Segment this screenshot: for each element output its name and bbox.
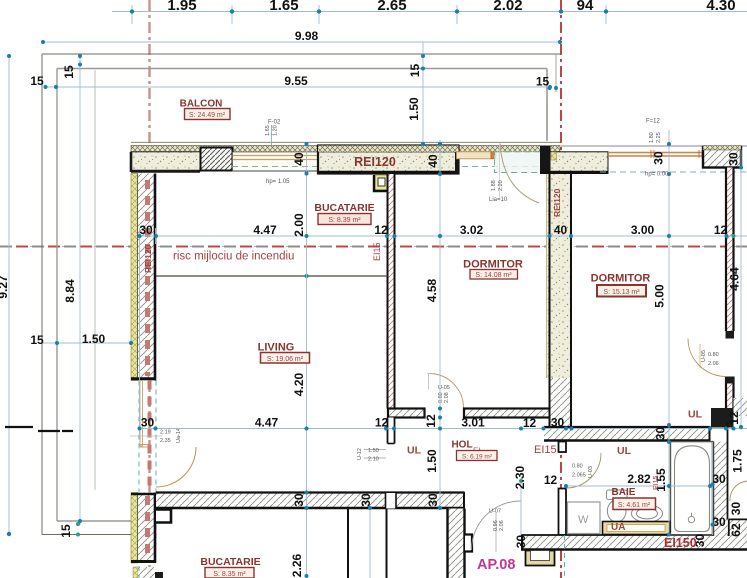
svg-text:2.10: 2.10: [368, 457, 379, 463]
svg-text:S: 4.61 m²: S: 4.61 m²: [618, 502, 651, 509]
balcony door swing arc: [500, 144, 539, 204]
svg-text:0.80: 0.80: [572, 464, 583, 470]
dim column x=440: [439, 140, 441, 509]
svg-text:3.00: 3.00: [631, 223, 655, 237]
room label DORMITOR 2: [591, 273, 651, 297]
svg-text:hp= 0.00: hp= 0.00: [645, 172, 669, 178]
neighbour door swing arc: [730, 481, 747, 501]
dim line x=712.5 right of baie: [712, 442, 714, 535]
window F-02 labels: [265, 120, 281, 146]
balcony overhang line above living: [156, 275, 388, 277]
room label BUCATARIE lower apt: [200, 556, 260, 578]
balcony bottom return inner: [57, 520, 131, 522]
svg-text:U-07: U-07: [489, 509, 501, 515]
svg-text:40: 40: [292, 152, 306, 166]
svg-text:EI15: EI15: [372, 242, 382, 261]
svg-text:W: W: [578, 514, 589, 526]
threshold end cap orange: [491, 152, 496, 159]
svg-text:S: 6.19 m²: S: 6.19 m²: [462, 454, 493, 461]
svg-text:AP.08: AP.08: [477, 557, 515, 573]
living balcony door swing arc: [156, 447, 196, 487]
svg-text:hp= 1.05: hp= 1.05: [266, 179, 290, 185]
north wall segment 3 (stipple): [540, 146, 609, 174]
svg-text:1.80: 1.80: [649, 132, 655, 143]
svg-text:S: 8.35 m²: S: 8.35 m²: [213, 571, 246, 578]
dim chain top y=11.5: [112, 11, 747, 13]
svg-text:REI120: REI120: [143, 244, 153, 273]
svg-text:UA: UA: [611, 522, 625, 533]
svg-text:2.82: 2.82: [627, 472, 651, 486]
svg-text:2.06: 2.06: [499, 520, 505, 531]
svg-text:30: 30: [426, 493, 440, 507]
svg-text:2.08: 2.08: [444, 392, 450, 403]
level tick dashes: [5, 427, 73, 431]
AP08 hol wall vertical: [448, 509, 466, 578]
baie door tray (tan): [603, 522, 671, 535]
balcony inner edge left: [56, 69, 58, 522]
svg-text:1.50: 1.50: [425, 449, 439, 473]
door U-03 swing arc: [566, 453, 601, 488]
masonry parapet block (hatched): [201, 148, 233, 171]
svg-text:62: 62: [729, 523, 743, 537]
dim line balcony 1.50 y=343: [42, 342, 131, 344]
svg-text:40: 40: [554, 223, 568, 237]
door U-05 swing arc: [688, 339, 726, 377]
dim line 9.27 x=9: [8, 56, 10, 534]
svg-text:UL: UL: [617, 445, 632, 457]
teal dots: [76, 234, 736, 537]
svg-text:9.27: 9.27: [0, 275, 10, 299]
left wall lower window start: [133, 566, 155, 578]
svg-text:2.20: 2.20: [498, 180, 504, 191]
svg-text:UL: UL: [407, 445, 422, 457]
svg-text:1.50: 1.50: [368, 448, 379, 454]
balcony thin line left: [94, 70, 96, 490]
svg-text:30: 30: [292, 493, 306, 507]
svg-text:1.50: 1.50: [407, 97, 421, 121]
svg-text:30: 30: [139, 223, 153, 237]
svg-text:94: 94: [577, 0, 594, 14]
svg-text:REI120: REI120: [552, 188, 562, 217]
balcony door opening zone (teal dashed): [495, 152, 541, 173]
dim chain rooms y=236: [139, 235, 747, 237]
north wall segment 1 (stipple): [131, 152, 200, 172]
svg-text:30: 30: [652, 151, 666, 165]
svg-text:4.58: 4.58: [425, 278, 439, 302]
window sill dashed line hp=1.05: [232, 166, 540, 168]
svg-text:15: 15: [59, 524, 73, 538]
svg-text:12: 12: [544, 473, 558, 487]
terrace edge dashed line hg 0.00: [600, 171, 747, 173]
svg-text:EI15: EI15: [534, 444, 557, 456]
svg-text:40: 40: [426, 154, 440, 168]
svg-text:30: 30: [551, 416, 565, 430]
svg-text:9.98: 9.98: [295, 29, 319, 43]
dim column x=669: [668, 130, 670, 535]
svg-text:Lia=10: Lia=10: [489, 197, 508, 203]
svg-text:S: 15.13 m²: S: 15.13 m²: [603, 289, 640, 296]
dim baie 2.82 y=486: [566, 485, 710, 487]
svg-text:2.06: 2.06: [708, 361, 719, 367]
bottom band left (between apartments): [156, 492, 465, 509]
svg-text:15: 15: [536, 75, 550, 89]
dim line 9.55 y=87: [45, 86, 550, 88]
svg-text:15: 15: [30, 74, 44, 88]
fire wall REI120 vertical x=546-572: [546, 174, 572, 428]
svg-text:U-12: U-12: [357, 448, 363, 460]
right wall dormitor2 (12cm): [726, 168, 735, 409]
baie left wall with door U-03: [559, 442, 567, 536]
party wall baie/neighbour (hatched): [713, 423, 728, 537]
svg-text:2.26: 2.26: [290, 553, 304, 577]
interior wall bucatarie/dormitor x=387-394: [388, 174, 395, 409]
svg-text:U-03: U-03: [588, 466, 594, 478]
svg-text:30: 30: [514, 535, 528, 549]
EI150 band bottom right: [521, 535, 747, 551]
parapet crosshatch strip: [131, 146, 560, 153]
hatch corner above neighbour room: [734, 398, 747, 416]
svg-text:12: 12: [375, 416, 389, 430]
lower apartment wall A: [347, 509, 349, 578]
svg-text:1.50: 1.50: [82, 332, 106, 346]
svg-text:30: 30: [712, 515, 726, 529]
ventilation shaft below band: [526, 551, 555, 566]
neighbour door jamb: [728, 417, 734, 423]
svg-text:5.00: 5.00: [653, 284, 667, 308]
svg-text:1.95: 1.95: [167, 0, 196, 14]
svg-text:F=12: F=12: [646, 119, 661, 125]
neighbour hatch block bottom right: [729, 519, 747, 536]
svg-text:EI15: EI15: [653, 475, 660, 490]
dim texts top: [167, 0, 735, 14]
AP08 entrance door swing arc: [472, 501, 521, 550]
black corner block right: [711, 408, 734, 428]
svg-text:3.01: 3.01: [461, 416, 485, 430]
svg-text:BUCATARIE: BUCATARIE: [200, 556, 260, 568]
washing machine: [568, 502, 601, 534]
wall REI120 block: [318, 146, 460, 174]
balcony door threshold (tan): [457, 152, 492, 159]
balcony bottom return outer: [42, 534, 136, 536]
svg-text:S: 24.49 m²: S: 24.49 m²: [189, 112, 226, 119]
svg-text:4.47: 4.47: [255, 416, 279, 430]
svg-text:2.30: 2.30: [513, 465, 527, 489]
dim column x=306.5: [306, 144, 308, 578]
svg-text:12: 12: [727, 411, 741, 425]
balcony inner edge top: [57, 68, 547, 70]
room label LIVING: [258, 342, 310, 364]
svg-text:12: 12: [424, 414, 438, 428]
extension ticks: [139, 228, 141, 436]
left exterior wall lower segment: [131, 493, 156, 564]
node tick red at axis crossing: [556, 242, 566, 252]
svg-text:12: 12: [523, 416, 537, 430]
svg-text:15: 15: [30, 333, 44, 347]
kitchen shaft box: [374, 175, 387, 191]
svg-text:15: 15: [408, 64, 422, 78]
sink: [632, 505, 663, 522]
svg-text:15: 15: [62, 65, 76, 79]
svg-text:LIVING: LIVING: [258, 342, 295, 354]
svg-text:DORMITOR: DORMITOR: [463, 259, 523, 271]
svg-text:2.00: 2.00: [292, 213, 306, 237]
pillar notch below left wall: [156, 510, 171, 523]
svg-text:8.84: 8.84: [63, 279, 77, 303]
svg-text:30: 30: [654, 427, 668, 441]
svg-text:F-02: F-02: [268, 120, 281, 126]
teal dashed line below EI150 band: [564, 535, 566, 578]
svg-text:2.35: 2.35: [160, 438, 171, 444]
wall stub bottom edge: [155, 572, 163, 578]
svg-text:30: 30: [727, 152, 741, 166]
balcony outer edge left: [41, 54, 43, 535]
svg-text:risc mijlociu de incendiu: risc mijlociu de incendiu: [173, 251, 294, 263]
svg-text:30: 30: [729, 502, 743, 516]
svg-text:HOL: HOL: [451, 440, 472, 451]
svg-text:30: 30: [141, 416, 155, 430]
svg-text:2.65: 2.65: [377, 0, 406, 14]
left exterior wall upper segment: [131, 174, 156, 381]
svg-text:4.30: 4.30: [706, 0, 735, 14]
dim line 9.98 y=42: [43, 41, 560, 43]
toilet: [607, 490, 628, 522]
bathtub: [671, 442, 714, 535]
hol top wall right segment: [464, 409, 550, 418]
door U-05 labels: [699, 344, 701, 368]
svg-text:4.47: 4.47: [253, 223, 277, 237]
window F-02: [233, 152, 319, 171]
balcony outer edge top: [42, 53, 560, 55]
left wall window Ua-14 zone: [130, 381, 162, 546]
svg-text:Ua-14: Ua-14: [176, 428, 182, 443]
axis horizontal risc line y=246.5 (gray+red alternating dash-dot): [0, 246, 747, 248]
svg-text:2.065: 2.065: [572, 473, 586, 479]
dim line 8.84 x=80: [79, 54, 81, 525]
svg-text:3.02: 3.02: [460, 223, 484, 237]
room label DORMITOR 1: [463, 259, 523, 280]
room label BALCON: [180, 99, 230, 120]
svg-text:EI150: EI150: [664, 536, 697, 550]
svg-text:BUCATARIE: BUCATARIE: [314, 202, 374, 214]
dim column x=741: [740, 150, 742, 430]
svg-text:1.20: 1.20: [273, 125, 279, 136]
svg-text:BAIE: BAIE: [612, 487, 636, 498]
lower apartment wall B: [386, 509, 388, 578]
door U-12 leader lines and labels: [364, 449, 386, 451]
top slab thin edge line: [131, 141, 560, 143]
dim line balcony depth x=423: [422, 42, 424, 144]
right exterior wall block (hatched): [703, 147, 741, 168]
svg-text:12: 12: [374, 223, 388, 237]
room label HOL: [451, 440, 497, 461]
svg-text:30: 30: [359, 493, 373, 507]
svg-text:REI120: REI120: [354, 155, 396, 169]
window F-12: [608, 150, 703, 158]
svg-text:4.64: 4.64: [728, 267, 742, 291]
hol/living wall stub with U-12 opening: [388, 418, 395, 444]
room label BUCATARIE: [314, 202, 374, 225]
svg-text:1.65: 1.65: [265, 125, 271, 136]
svg-text:S: 14.08 m²: S: 14.08 m²: [475, 272, 512, 279]
svg-text:0.80: 0.80: [708, 352, 719, 358]
dim chain hol y=428: [139, 428, 747, 430]
svg-text:2.25: 2.25: [656, 132, 662, 143]
svg-text:12: 12: [714, 223, 728, 237]
svg-text:1.75: 1.75: [731, 449, 745, 473]
balcony right thin edge: [555, 54, 557, 92]
svg-text:S: 19.06 m²: S: 19.06 m²: [267, 356, 304, 363]
door frame notch: [465, 535, 472, 552]
axis vertical fire wall x=561 (dark red dash-dot): [560, 0, 562, 578]
svg-text:2.02: 2.02: [493, 0, 522, 14]
baie top wall band: [544, 426, 711, 442]
axis vertical left (salmon dash-dot): [148, 0, 150, 578]
svg-text:9.55: 9.55: [284, 74, 308, 88]
balcony inner edge right: [546, 69, 548, 142]
svg-text:S: 8.39 m²: S: 8.39 m²: [328, 217, 361, 224]
hol top wall left segment: [388, 409, 425, 418]
svg-text:U-05: U-05: [701, 350, 707, 362]
svg-text:UL: UL: [688, 409, 703, 421]
svg-text:1.65: 1.65: [269, 0, 298, 14]
door UI-05 swing arc: [429, 374, 464, 409]
svg-text:1.88: 1.88: [491, 180, 497, 191]
svg-text:4.20: 4.20: [292, 372, 306, 396]
svg-text:2.19: 2.19: [160, 430, 171, 436]
svg-text:DORMITOR: DORMITOR: [591, 273, 651, 285]
window F-12 labels: [646, 119, 662, 144]
room label BAIE: [612, 487, 656, 510]
